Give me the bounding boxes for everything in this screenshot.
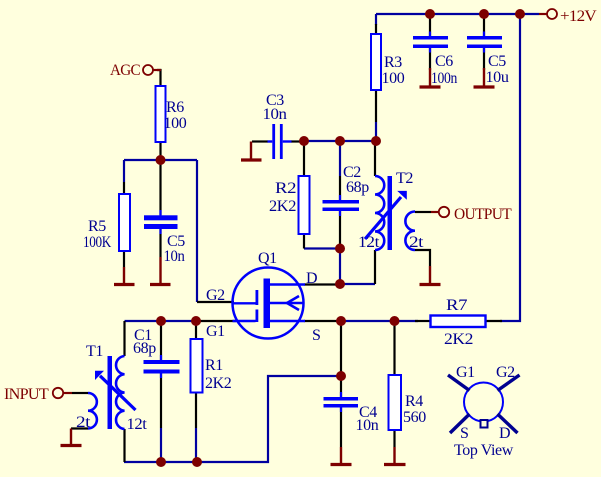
wire G1 lead to Q1: [196, 320, 236, 322]
transformer T2 core: [388, 176, 393, 250]
resistor R7: [431, 316, 486, 328]
transformer T2 secondary coil 2t: [405, 212, 415, 251]
svg-text:AGC: AGC: [110, 62, 140, 79]
node R1 bottom rail: [192, 457, 202, 467]
wire C5 top pin: [483, 16, 485, 36]
ground below R4: [384, 447, 406, 465]
wire R3 bottom to node: [375, 122, 377, 141]
wire T1 secondary top pin: [123, 321, 125, 356]
node T2 primary top: [371, 136, 381, 146]
svg-text:G1: G1: [206, 323, 225, 340]
transformer T2 primary coil 12t: [375, 176, 384, 250]
wire T2 primary bottom pin: [374, 250, 376, 284]
svg-text:R3: R3: [384, 54, 402, 71]
wire C3 node horizontal: [304, 140, 376, 142]
resistor R6: [156, 86, 166, 142]
capacitor C6: [413, 36, 448, 48]
wire R4 top pin: [393, 321, 395, 375]
wire AGC terminal stub: [153, 69, 162, 71]
wire C1 bottom blue part: [160, 428, 162, 462]
wire AGC node horizontal: [124, 159, 197, 161]
ground below R5: [114, 267, 135, 285]
wire R3 top pin: [375, 24, 377, 34]
node C4 top: [336, 371, 346, 381]
wire C3 left pin: [252, 140, 268, 142]
svg-text:T2: T2: [396, 170, 413, 187]
ground below T1 primary: [61, 429, 82, 446]
svg-text:T1: T1: [86, 343, 103, 360]
svg-text:G2: G2: [206, 287, 225, 304]
wire C4 bottom pin: [340, 408, 342, 448]
transistor Q1 channel bar: [264, 279, 271, 329]
wire G1 horizontal: [125, 320, 197, 322]
resistor R4: [389, 375, 402, 430]
node C2 top: [335, 136, 345, 146]
ground below T2 secondary: [420, 266, 441, 285]
wire top +12V rail: [376, 13, 539, 15]
package lead D: [498, 414, 518, 433]
wire T2 secondary bottom lead: [415, 250, 430, 266]
wire OUTPUT lead: [415, 211, 431, 213]
svg-text:R2: R2: [275, 180, 296, 197]
wire C4 top pin: [340, 376, 342, 397]
capacitor C3: [272, 124, 282, 159]
svg-text:560: 560: [403, 409, 426, 426]
svg-text:Q1: Q1: [258, 250, 277, 267]
capacitor C2: [323, 200, 360, 211]
svg-text:100K: 100K: [83, 234, 112, 251]
svg-text:R5: R5: [88, 218, 106, 235]
terminal AGC: [143, 65, 153, 75]
svg-text:C6: C6: [435, 53, 453, 70]
wire right bus vertical: [500, 14, 520, 321]
wire +12V terminal stub: [539, 13, 547, 15]
WIRES_BLUE: [124, 14, 539, 462]
terminal OUTPUT: [439, 207, 449, 217]
transformer T1 core: [108, 356, 113, 429]
svg-text:G1: G1: [456, 364, 475, 381]
svg-text:S: S: [460, 425, 469, 442]
wire INPUT lead: [72, 392, 88, 394]
svg-text:100: 100: [164, 115, 187, 132]
svg-text:D: D: [306, 270, 317, 287]
wire G2 lead to Q1: [197, 301, 234, 303]
transistor Q1 gate bars: [256, 290, 259, 322]
wire Q1 drain to D node: [304, 283, 340, 285]
svg-text:2t: 2t: [76, 414, 91, 431]
svg-text:OUTPUT: OUTPUT: [454, 206, 512, 223]
svg-text:100n: 100n: [431, 70, 457, 87]
wire R4 bottom pin: [393, 430, 395, 447]
transformer T1 tuning arrow: [95, 371, 136, 410]
wire R1 top pin: [195, 321, 197, 339]
wire T1 secondary bottom pin: [123, 429, 125, 462]
svg-text:10u: 10u: [486, 69, 509, 86]
transformer T1 secondary coil 12t: [116, 356, 124, 429]
wire R5 bottom pin: [123, 251, 125, 267]
node top rail right bus: [515, 9, 525, 19]
svg-text:+12V: +12V: [560, 8, 597, 25]
svg-text:C5: C5: [488, 53, 506, 70]
ground below C5b: [150, 257, 171, 285]
wire C2 bottom pin: [339, 211, 341, 249]
capacitor C1: [144, 360, 180, 374]
transistor Q1 source pin: [270, 320, 305, 322]
node R2 top: [299, 136, 309, 146]
ground at C3: [241, 142, 262, 161]
node R2 C2 bottom: [335, 244, 345, 254]
svg-text:100: 100: [382, 70, 405, 87]
svg-text:Top View: Top View: [454, 442, 514, 459]
wire R1 bottom blue part: [195, 428, 197, 462]
wire C5 bottom pin: [483, 48, 485, 70]
terminal INPUT: [53, 388, 63, 398]
PINS_BLACK: [71, 16, 502, 462]
node top rail C6: [425, 9, 435, 19]
transistor Q1 arrow: [287, 296, 299, 310]
resistor R3: [371, 34, 381, 90]
svg-text:68p: 68p: [133, 340, 156, 357]
svg-text:12t: 12t: [358, 234, 380, 251]
svg-text:12t: 12t: [127, 416, 148, 433]
wire C2 top pin lower: [339, 176, 341, 200]
wire C2 bottom node to D node: [339, 249, 341, 285]
wire R1 bottom pin: [195, 393, 197, 429]
svg-text:R4: R4: [405, 393, 423, 410]
wire T2 primary top pin: [374, 141, 376, 176]
wire C3 right pin: [291, 140, 304, 142]
node C1 bottom rail: [156, 457, 166, 467]
svg-text:2K2: 2K2: [205, 375, 232, 392]
wire T1 primary bottom lead: [71, 427, 88, 429]
wire Q1 source black part: [304, 320, 338, 322]
svg-text:R6: R6: [166, 99, 184, 116]
wire R7 left pin: [415, 320, 431, 322]
capacitor C5b 10n: [144, 215, 178, 229]
wire C1 bottom pin: [160, 374, 162, 429]
capacitor C4: [324, 397, 359, 408]
wire C6 top pin: [429, 16, 431, 36]
package lead G2: [498, 375, 520, 391]
svg-text:10n: 10n: [263, 106, 287, 123]
wire S node horizontal: [337, 320, 418, 322]
ground below C6: [420, 68, 441, 87]
package top view circle: [464, 383, 503, 422]
wire INPUT terminal stub: [64, 392, 73, 394]
svg-text:S: S: [312, 327, 321, 344]
wire C2 top lead upper: [339, 141, 341, 176]
svg-text:68p: 68p: [346, 179, 369, 196]
node C1 top: [156, 316, 166, 326]
wire AGC terminal corner: [157, 70, 161, 86]
svg-text:10n: 10n: [356, 417, 379, 434]
wire R7 right pin: [486, 320, 503, 322]
wire C6 bottom pin: [429, 48, 431, 70]
wire G2 vertical run: [196, 160, 198, 302]
svg-text:2t: 2t: [409, 234, 424, 251]
wire bottom rail: [124, 376, 341, 462]
package lead S: [450, 414, 470, 433]
package lead G1: [448, 375, 470, 391]
wire OUTPUT terminal stub: [431, 211, 439, 213]
node G1 R1: [191, 316, 201, 326]
op-amp Q1 circle body: [233, 268, 304, 339]
wire C5b top pin: [159, 160, 161, 215]
wire R3 top stub: [375, 14, 377, 25]
wire C1 top pin: [160, 321, 162, 360]
svg-text:G2: G2: [496, 364, 515, 381]
node AGC junction: [156, 155, 166, 165]
wire D node to T2 primary: [340, 283, 375, 285]
svg-text:R1: R1: [205, 357, 223, 374]
ground below C4: [331, 447, 352, 465]
node S C4: [336, 316, 346, 326]
node D drain: [335, 279, 345, 289]
wire R2 bottom pin: [303, 234, 305, 249]
wire R3 bottom pin: [375, 90, 377, 122]
ground below C5: [474, 68, 495, 87]
wire AGC node to R5: [123, 160, 125, 182]
svg-text:R7: R7: [446, 297, 467, 314]
capacitor C5: [467, 36, 502, 48]
wire S node to C4: [340, 321, 342, 376]
transistor Q1 gate leads: [233, 303, 256, 321]
svg-text:10n: 10n: [164, 248, 185, 265]
capacitor lead stubs: [161, 32, 485, 413]
terminal +12V: [547, 9, 557, 19]
transistor Q1 drain pin: [270, 283, 305, 285]
svg-text:2K2: 2K2: [269, 198, 296, 215]
wire R5 top pin: [123, 182, 125, 194]
wire R2 bottom horizontal: [304, 247, 340, 249]
transformer T1 primary coil 2t: [88, 393, 97, 429]
wire C5b bottom pin: [159, 229, 161, 257]
svg-text:2K2: 2K2: [444, 331, 473, 348]
package tab: [481, 420, 488, 428]
wire R2 top pin: [303, 141, 305, 176]
node S R4: [390, 316, 400, 326]
svg-text:D: D: [499, 425, 510, 442]
svg-text:INPUT: INPUT: [4, 386, 49, 403]
wire R6 bottom pin: [159, 142, 161, 159]
resistor R5: [119, 194, 130, 251]
resistor R1: [191, 339, 203, 393]
resistor R2: [299, 176, 310, 234]
node top rail C5: [479, 9, 489, 19]
transistor Q1 substrate line: [270, 302, 303, 304]
transformer T2 tuning arrow: [365, 191, 407, 239]
